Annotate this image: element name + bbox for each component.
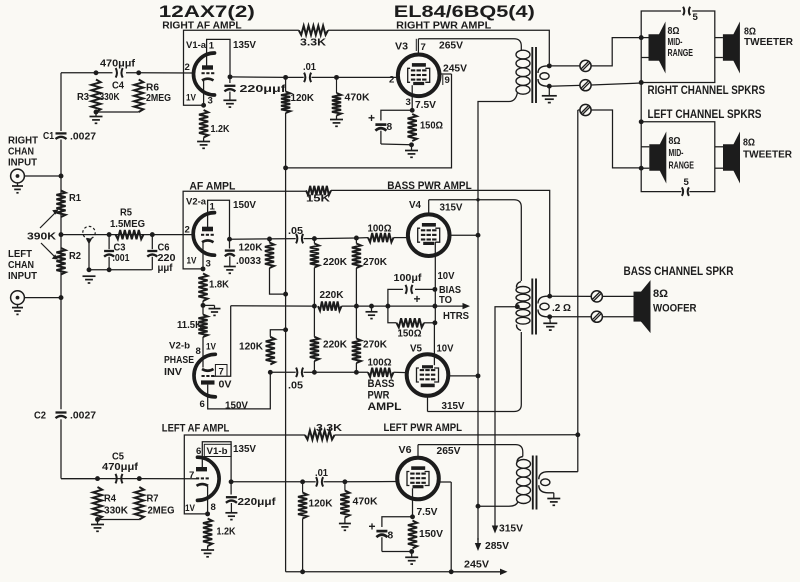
- svg-text:V6: V6: [399, 445, 412, 456]
- wire V1-a output line: [230, 76, 286, 79]
- wire T2 sec to woofer terminals: [550, 295, 592, 297]
- node R4 junction: [95, 476, 100, 481]
- wire 270K chain: [355, 268, 357, 339]
- tube V3 plate lead pin 7: [417, 39, 419, 55]
- wire jack2 to column: [24, 297, 61, 299]
- svg-text:1: 1: [210, 202, 216, 213]
- ground at 1.8K/11.5K junction: [203, 304, 215, 306]
- tube V2-b envelope arc: [194, 354, 215, 397]
- capacitor C5 470uuf: [116, 474, 117, 484]
- wire V1-b output line: [231, 481, 303, 483]
- tube V2-b cathode: [202, 369, 214, 371]
- speaker 8ohm midrange right: [649, 34, 661, 61]
- tube V6 pentode: [397, 458, 439, 500]
- capacitor 220uuf V1-a plate: [229, 77, 231, 83]
- tube V1-a plate lead pin 1: [207, 39, 230, 77]
- svg-text:470μμf: 470μμf: [100, 59, 136, 70]
- capacitor .05 top: [296, 234, 297, 244]
- svg-text:R5: R5: [120, 208, 132, 219]
- svg-text:INPUT: INPUT: [8, 271, 37, 282]
- svg-text:BASS CHANNEL SPKR: BASS CHANNEL SPKR: [624, 266, 735, 278]
- svg-text:3.3K: 3.3K: [316, 423, 343, 434]
- svg-text:245V: 245V: [464, 560, 489, 571]
- resistor 120K V1-a load: [281, 92, 290, 114]
- arrow 245V supply: [451, 571, 500, 573]
- svg-text:100Ω: 100Ω: [368, 224, 392, 235]
- svg-text:150V: 150V: [419, 529, 443, 540]
- tube V2-a plate lead pin 1: [208, 200, 230, 239]
- svg-text:8: 8: [387, 122, 393, 133]
- node 220K chain mid junction: [312, 304, 317, 309]
- terminal woofer return: [591, 311, 602, 322]
- node bias cap to node X: [432, 287, 437, 292]
- tube V4 pentode: [408, 214, 450, 256]
- svg-text:MID-: MID-: [668, 37, 683, 48]
- svg-text:V2-a: V2-a: [186, 197, 207, 208]
- svg-text:10V: 10V: [437, 344, 454, 355]
- resistor 270K lower: [352, 339, 361, 364]
- svg-text:120K: 120K: [291, 93, 315, 104]
- svg-text:PHASE: PHASE: [164, 355, 194, 366]
- svg-text:6: 6: [196, 446, 201, 457]
- svg-text:2MEG: 2MEG: [146, 93, 171, 104]
- speaker 8ohm midrange left: [649, 144, 661, 171]
- node V4 screen to rail: [476, 233, 481, 238]
- svg-text:150V: 150V: [225, 401, 248, 412]
- tube V5 cathode lead: [433, 323, 435, 365]
- node R7 junction: [137, 476, 142, 481]
- transformer T2 center tap: [515, 304, 520, 309]
- node R6 junction: [136, 70, 141, 75]
- svg-text:8Ω: 8Ω: [653, 288, 668, 300]
- svg-text:8: 8: [211, 502, 217, 513]
- tube V4 cathode lead: [434, 242, 436, 290]
- tube V1-b grid dashes: [196, 477, 199, 479]
- svg-text:C1: C1: [43, 131, 54, 142]
- terminal woofer hot: [591, 291, 602, 302]
- resistor 150 cathode V6: [408, 521, 417, 549]
- transformer T3 core: [532, 456, 534, 510]
- transformer T1 core: [531, 47, 533, 103]
- resistor 270K upper: [355, 238, 357, 244]
- svg-text:.05: .05: [288, 226, 303, 237]
- ground T3 secondary: [547, 498, 560, 500]
- svg-text:LEFT CHANNEL SPKRS: LEFT CHANNEL SPKRS: [648, 109, 762, 121]
- svg-text:TWEETER: TWEETER: [743, 150, 793, 161]
- transformer T2 secondary: [538, 296, 550, 303]
- arrow 315V supply: [494, 525, 496, 528]
- wire common return down to left box: [640, 83, 642, 122]
- svg-text:C2: C2: [34, 411, 46, 422]
- node R3 bottom: [94, 110, 99, 115]
- svg-text:3: 3: [208, 96, 213, 107]
- svg-text:R7: R7: [147, 494, 159, 505]
- svg-text:1V: 1V: [186, 93, 196, 104]
- wire cathode to bypass V6: [382, 517, 413, 527]
- resistor 100ohm V4 grid stopper: [368, 233, 394, 242]
- resistor 1.2K cathode V1-a: [199, 110, 208, 138]
- svg-text:PWR: PWR: [368, 390, 390, 402]
- svg-text:100Ω: 100Ω: [368, 358, 392, 369]
- wire feedback from 3.3K to V1-a cathode: [184, 30, 299, 105]
- node 1.8K bottom junction: [201, 303, 206, 308]
- wire V3 plate to T1 primary top: [418, 39, 521, 51]
- input jack right channel: [11, 169, 25, 183]
- svg-text:150V: 150V: [233, 200, 256, 211]
- ground T2 secondary: [549, 317, 552, 324]
- node V2-b jog junction: [283, 327, 288, 332]
- node 120K#4 bottom junction: [300, 569, 305, 574]
- resistor R3 330K: [91, 80, 100, 113]
- ground under 470K#2: [344, 518, 346, 524]
- svg-text:15K: 15K: [306, 194, 331, 205]
- svg-text:LEFT: LEFT: [8, 249, 32, 260]
- svg-text:.2 Ω: .2 Ω: [552, 303, 571, 314]
- tube V4 plate lead: [428, 200, 430, 215]
- wire T1 sec bottom to terminal: [549, 84, 580, 87]
- svg-text:265V: 265V: [437, 446, 461, 457]
- svg-text:R3: R3: [77, 92, 89, 103]
- terminal right channel hot: [580, 60, 591, 71]
- wire midrange leads: [641, 37, 648, 39]
- svg-text:RANGE: RANGE: [668, 48, 694, 59]
- resistor 3.3K feedback left: [305, 430, 335, 439]
- capacitor C1 .0027: [56, 132, 67, 134]
- node shield ground junction: [87, 267, 92, 272]
- capacitor 5uf crossover right: [683, 7, 684, 16]
- wire node X vertical: [434, 289, 436, 322]
- svg-text:RIGHT: RIGHT: [8, 136, 38, 147]
- ground bias network: [371, 306, 373, 312]
- node 470K#2 junction: [342, 479, 347, 484]
- node T1 secondary bottom: [547, 84, 552, 89]
- tube V2-b plate: [201, 380, 215, 384]
- resistor 220K lower: [310, 337, 319, 361]
- tube V1-a grid dashes: [202, 72, 205, 74]
- wire feedback left channel: [184, 435, 305, 514]
- speaker 8ohm tweeter right: [723, 34, 735, 61]
- svg-text:V2-b: V2-b: [169, 341, 190, 352]
- ground under R4: [97, 520, 99, 525]
- wire tweeter leads: [715, 37, 723, 39]
- wire 3.3K to left speaker line: [335, 434, 578, 436]
- svg-text:3.3K: 3.3K: [300, 38, 327, 49]
- resistor 150ohm bias: [388, 306, 397, 323]
- node .01 left junction: [283, 75, 288, 80]
- svg-text:3: 3: [206, 259, 211, 270]
- svg-text:V5: V5: [410, 344, 422, 355]
- wire right speaker box outline: [641, 11, 681, 83]
- svg-text:+: +: [414, 292, 421, 306]
- svg-text:315V: 315V: [440, 203, 463, 214]
- tube V1-a cathode lead pin 3: [203, 81, 205, 106]
- tube V1-a cathode: [202, 79, 214, 81]
- node V2-a cathode junction: [201, 266, 206, 271]
- svg-text:1V: 1V: [206, 342, 216, 353]
- node V2-a output junction: [227, 237, 232, 242]
- svg-text:.01: .01: [303, 62, 316, 73]
- tube V5 plate lead: [427, 396, 429, 412]
- svg-text:INPUT: INPUT: [8, 158, 37, 169]
- ground under 1.2K: [203, 138, 205, 142]
- transformer T1 secondary: [538, 66, 549, 73]
- node 120K#4 junction: [300, 479, 305, 484]
- svg-text:AF AMPL: AF AMPL: [189, 181, 235, 193]
- svg-text:1.5MEG: 1.5MEG: [110, 219, 145, 230]
- svg-text:C4: C4: [112, 81, 124, 92]
- svg-text:8: 8: [196, 346, 202, 357]
- tube V4 screen lead: [449, 234, 478, 236]
- wire V6 plate to T3 primary top: [418, 445, 523, 457]
- svg-text:CHAN: CHAN: [8, 260, 34, 271]
- svg-text:470μμf: 470μμf: [102, 462, 139, 473]
- svg-text:1.2K: 1.2K: [217, 527, 237, 538]
- svg-text:R4: R4: [104, 494, 116, 505]
- wire tweeter2 leads: [715, 146, 723, 148]
- wire bias line: [342, 305, 464, 307]
- svg-text:μμf: μμf: [158, 263, 174, 274]
- resistor 1.2K cathode V1-b: [203, 519, 212, 547]
- capacitor 100uf bias: [388, 289, 403, 306]
- svg-text:220μμf: 220μμf: [240, 84, 287, 95]
- node bias arrow junction: [432, 304, 437, 309]
- ground for shield: [83, 275, 96, 277]
- wire V2-b grid feed line: [231, 305, 315, 307]
- tube V3 pentode: [398, 55, 440, 97]
- node 220K#1 junction: [312, 236, 317, 241]
- capacitor 220uuf V1-b plate: [230, 482, 232, 495]
- resistor 120K V2-b load: [266, 337, 275, 365]
- tube V1-b envelope arc: [198, 457, 220, 500]
- svg-text:2: 2: [185, 225, 190, 236]
- svg-text:2: 2: [185, 62, 190, 73]
- svg-text:120K: 120K: [309, 499, 334, 510]
- node T3 primary bottom junction: [476, 504, 481, 509]
- transformer T1 primary bottom lead to B+ rail: [478, 92, 518, 104]
- resistor R6 2MEG: [134, 80, 143, 113]
- svg-text:.0027: .0027: [70, 411, 96, 422]
- svg-text:INV: INV: [164, 367, 182, 378]
- ground under V6 cathode: [411, 552, 413, 558]
- capacitor .01 left channel: [316, 477, 317, 487]
- wire top-left horizontal to R3: [61, 72, 96, 74]
- tube V5 pentode: [407, 354, 449, 396]
- svg-text:100μf: 100μf: [394, 273, 423, 284]
- svg-text:11.5K: 11.5K: [177, 320, 203, 331]
- node R3 top junction: [94, 70, 99, 75]
- node left box top junction: [639, 119, 644, 124]
- svg-text:BASS: BASS: [368, 378, 395, 390]
- node C6 top junction: [150, 232, 155, 237]
- wire V2-b output line: [270, 371, 295, 373]
- node R4 bottom: [95, 517, 100, 522]
- transformer T3 secondary: [539, 472, 578, 480]
- svg-text:.05: .05: [288, 381, 303, 392]
- tube V5 screen lead: [448, 375, 478, 377]
- node 150 bottom V6: [409, 549, 414, 554]
- svg-text:HTRS: HTRS: [443, 311, 469, 322]
- svg-text:150Ω: 150Ω: [420, 121, 443, 132]
- tube V2-a plate: [202, 227, 213, 232]
- tube V1-b plate: [196, 467, 207, 471]
- wire bypass bottom: [381, 143, 412, 146]
- resistor 220K middle horizontal: [318, 302, 342, 311]
- wire V4 plate to T2 primary top: [429, 200, 522, 281]
- ground T1 secondary: [548, 86, 550, 96]
- svg-text:1V: 1V: [187, 256, 197, 267]
- svg-text:8Ω: 8Ω: [744, 27, 756, 38]
- svg-text:.001: .001: [113, 253, 130, 264]
- resistor 3.3K feedback right channel: [299, 26, 328, 35]
- tube V2-a grid dashes: [201, 234, 204, 236]
- svg-text:R1: R1: [69, 193, 81, 204]
- terminal right channel return: [580, 80, 591, 91]
- svg-text:270K: 270K: [363, 257, 388, 268]
- resistor R7 2MEG: [135, 487, 144, 520]
- svg-text:10V: 10V: [438, 271, 455, 282]
- svg-text:1.2K: 1.2K: [211, 124, 231, 135]
- wire terminal1 to speakers: [591, 38, 641, 66]
- svg-text:220K: 220K: [320, 290, 345, 301]
- tube V6 cathode lead: [412, 488, 414, 517]
- wire T1 sec top to terminal: [549, 65, 580, 67]
- node bias res to node X: [432, 320, 437, 325]
- svg-text:5: 5: [684, 177, 690, 188]
- resistor 150ohm cathode V3: [408, 114, 417, 141]
- arrow BIAS TO HTRS: [463, 303, 471, 309]
- svg-text:120K: 120K: [239, 243, 264, 254]
- svg-text:285V: 285V: [485, 541, 509, 552]
- node screen line junction: [283, 165, 288, 170]
- node C3 bottom junction: [107, 267, 112, 272]
- resistor 100ohm V5 grid stopper: [368, 368, 394, 377]
- node V2-b output junction: [268, 370, 273, 375]
- node 470K junction: [334, 75, 339, 80]
- wire left-channel grid line: [61, 234, 109, 236]
- tube V2-a envelope arc: [193, 213, 214, 256]
- svg-text:LEFT AF AMPL: LEFT AF AMPL: [162, 423, 230, 435]
- svg-text:150Ω: 150Ω: [398, 329, 422, 340]
- svg-text:WOOFER: WOOFER: [653, 303, 697, 315]
- label pin 9: [442, 75, 444, 85]
- wire terminal3 to left box: [578, 109, 580, 111]
- resistor 470K V6 grid: [344, 482, 346, 491]
- arrow 285V supply: [477, 538, 479, 545]
- tube V1-b cathode lead pin 8: [207, 486, 209, 514]
- svg-text:R6: R6: [146, 83, 159, 94]
- svg-text:265V: 265V: [439, 41, 463, 52]
- svg-text:CHAN: CHAN: [8, 147, 34, 158]
- wire C3/C6 bottom rail: [89, 269, 152, 271]
- svg-text:7: 7: [219, 367, 224, 378]
- node left speaker feedback junction: [575, 432, 580, 437]
- svg-text:390K: 390K: [27, 232, 57, 243]
- node V6 cathode junction: [410, 514, 415, 519]
- ground under 150ohm: [411, 145, 413, 151]
- node V1-a cathode junction: [201, 103, 206, 108]
- svg-text:V4: V4: [409, 200, 421, 211]
- node 270K chain mid junction: [354, 304, 359, 309]
- svg-text:V1-a: V1-a: [186, 40, 207, 51]
- resistor 470K V3 grid: [336, 77, 338, 93]
- svg-text:12AX7(2): 12AX7(2): [159, 2, 255, 21]
- transformer T2 core: [531, 279, 533, 335]
- capacitor 8uf bypass V6: [376, 530, 387, 533]
- speaker 8ohm woofer: [634, 292, 643, 322]
- node V1-a plate output junction: [228, 74, 233, 79]
- resistor R5 1.5MEG: [116, 230, 144, 239]
- svg-text:6: 6: [200, 399, 205, 410]
- svg-text:.0027: .0027: [70, 132, 96, 143]
- resistor 11.5K V2-b cathode: [198, 315, 207, 338]
- wire bottom 245V rail: [286, 571, 452, 573]
- svg-text:LEFT PWR AMPL: LEFT PWR AMPL: [384, 422, 463, 434]
- svg-text:8: 8: [388, 531, 394, 542]
- node C3 top junction: [107, 232, 112, 237]
- svg-text:2MEG: 2MEG: [148, 506, 175, 517]
- svg-text:1.8K: 1.8K: [209, 280, 230, 291]
- node 220K lower junction: [312, 370, 317, 375]
- node bias ground junction: [369, 304, 374, 309]
- svg-text:7.5V: 7.5V: [415, 100, 436, 111]
- svg-text:330K: 330K: [100, 92, 121, 103]
- resistor R2 390K: [56, 248, 65, 275]
- svg-text:2: 2: [389, 75, 394, 86]
- speaker 8ohm tweeter left: [723, 144, 735, 171]
- svg-text:315V: 315V: [499, 524, 523, 535]
- node bias cap branch junction: [385, 304, 390, 309]
- svg-text:RANGE: RANGE: [669, 161, 695, 172]
- wire terminals to woofer: [602, 295, 633, 297]
- label pin 7 box: [415, 39, 417, 51]
- node box bottom junction: [639, 80, 644, 85]
- node 270K lower junction: [354, 370, 359, 375]
- wire 120K jog to B+ rail: [270, 268, 286, 294]
- resistor 120K V2-a load: [269, 239, 271, 243]
- tube V3 screen lead pin 9: [440, 73, 452, 75]
- svg-text:C5: C5: [112, 452, 124, 463]
- wire left speaker box outline: [641, 122, 715, 192]
- node left mid return junction: [639, 166, 644, 171]
- tube V2-b grid lead pin 7: [214, 306, 231, 376]
- node speaker feed junction: [639, 35, 644, 40]
- resistor 1.8K cathode V2-a: [198, 274, 207, 302]
- tube V3 cathode lead pin 3: [411, 85, 413, 110]
- svg-text:9: 9: [445, 75, 450, 86]
- node V1-b cathode junction: [205, 511, 210, 516]
- wire B+ 245V rail vertical: [285, 77, 287, 91]
- capacitor .05 bottom: [296, 368, 297, 378]
- capacitor .01 right channel: [304, 73, 305, 83]
- wire V2-a output line: [230, 238, 296, 241]
- tube V6 screen lead: [439, 481, 452, 483]
- svg-text:330K: 330K: [104, 506, 129, 517]
- node jack2 junction: [59, 295, 64, 300]
- svg-text:7: 7: [421, 42, 426, 53]
- wire R4/R7 bottom: [98, 519, 140, 521]
- capacitor C3 .001: [108, 235, 110, 250]
- transformer T1 primary: [516, 50, 530, 59]
- capacitor 5uf crossover left: [682, 187, 683, 196]
- svg-text:220K: 220K: [323, 340, 348, 351]
- wire C4 link: [96, 72, 139, 74]
- svg-text:315V: 315V: [442, 401, 465, 412]
- resistor 220K upper: [313, 239, 315, 244]
- svg-text:270K: 270K: [363, 340, 388, 351]
- capacitor C4 470uuf: [113, 68, 127, 79]
- tube V1-a plate: [202, 65, 213, 69]
- svg-text:0V: 0V: [219, 380, 232, 391]
